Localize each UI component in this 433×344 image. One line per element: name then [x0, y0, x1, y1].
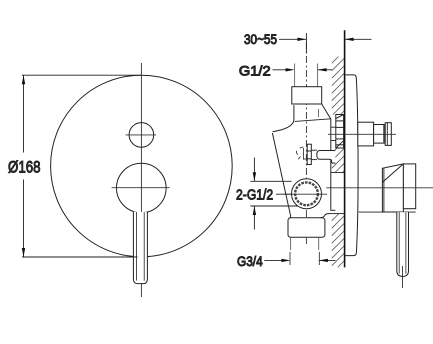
lever handle inner highlight lines	[136, 212, 138, 281]
arrowhead left at wall face	[345, 38, 354, 41]
small front fitting	[307, 144, 311, 164]
diverter nut at wall	[336, 115, 344, 149]
lever shaft inner lines	[398, 212, 400, 274]
handle sleeve	[382, 164, 403, 212]
lever centerline	[402, 266, 404, 288]
arrowhead down	[22, 248, 25, 257]
G1/2 arrowhead right	[286, 68, 295, 71]
30~55 extension line (center axis above)	[305, 33, 307, 54]
diverter knob end flange	[385, 123, 391, 146]
diverter button centerline horizontal	[126, 134, 156, 136]
svg-text:Ø168: Ø168	[8, 158, 41, 176]
main valve centerline (dashed)	[305, 42, 307, 244]
escutcheon plate side profile	[345, 75, 358, 256]
wall hole top edge	[331, 172, 345, 174]
G1/2 top pipe left wall	[294, 64, 296, 87]
side port horizontal centerline	[284, 193, 328, 195]
fitting left small marks	[300, 147, 304, 148]
internal line below block	[318, 109, 320, 117]
arrowhead right at centerline	[297, 38, 306, 41]
handle rear ring line	[359, 211, 416, 213]
G3/4 leader	[264, 259, 282, 261]
handle hub circle	[117, 163, 167, 213]
body right face bottom step	[331, 209, 336, 211]
dim line 30~55 right part	[345, 38, 372, 40]
G1/2 leader line	[273, 69, 287, 71]
clip vertical mark	[303, 148, 305, 160]
dim line 30~55 left part	[279, 38, 306, 40]
diverter knob axis centerline	[328, 133, 396, 135]
G3/4 arrowhead	[281, 259, 290, 262]
G1/2 dim right arrow	[318, 69, 332, 71]
handle hub centerline horizontal	[112, 187, 170, 189]
G1/2 top pipe right wall	[317, 64, 319, 87]
G3/4 right arrow	[319, 259, 336, 261]
lever shaft	[397, 212, 409, 276]
rear flange connector	[321, 214, 332, 218]
side port outer circle	[292, 179, 322, 209]
wall hole bottom edge	[331, 213, 344, 215]
diverter button circle	[129, 123, 154, 148]
body left neck	[273, 105, 294, 132]
2-G1/2 lower extension line	[250, 205, 301, 207]
G3/4 pipe left wall	[290, 237, 292, 250]
body right face	[330, 119, 332, 209]
body top-right chamfer	[322, 104, 331, 119]
2-G1/2 dim line below	[253, 206, 255, 230]
2-G1/2 upper extension line	[250, 180, 291, 182]
body shoulder line	[295, 119, 331, 122]
svg-text:G1/2: G1/2	[239, 62, 271, 78]
2-G1/2 leader to port	[276, 193, 292, 195]
diverter nut neck	[331, 126, 336, 128]
valve body top block	[292, 87, 322, 104]
G3/4 pipe right wall	[318, 237, 320, 250]
svg-text:2-G1/2: 2-G1/2	[236, 188, 273, 204]
handle sleeve diagonal	[382, 165, 402, 183]
dimension line Ø168	[23, 75, 25, 152]
dimension extension line top	[22, 74, 141, 76]
bottom port block	[288, 218, 325, 238]
escutcheon plate circle Ø168	[51, 75, 233, 257]
handle axis centerline	[326, 187, 433, 189]
dimension extension line bottom	[22, 256, 138, 258]
handle sleeve inner edge	[383, 168, 385, 212]
diverter knob middle section	[374, 125, 385, 144]
diverter bracket	[317, 151, 336, 164]
wall hatch	[332, 57, 345, 268]
svg-text:30~55: 30~55	[244, 32, 277, 47]
2-G1/2 dim line above	[253, 158, 255, 182]
arrowhead up	[22, 75, 25, 84]
fitting lines to bracket	[311, 149, 317, 151]
centerline vertical	[140, 63, 142, 297]
diverter knob base section	[358, 122, 374, 146]
svg-text:G3/4: G3/4	[237, 254, 263, 269]
wall face line	[344, 30, 346, 267]
lever handle outline	[133, 212, 147, 284]
body left sloped edge	[272, 133, 290, 218]
handle knuckle	[403, 164, 415, 209]
side port thread ring	[295, 182, 318, 205]
